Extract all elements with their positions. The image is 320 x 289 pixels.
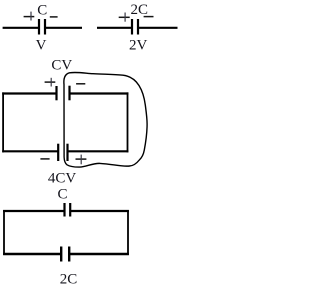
svg-text:V: V [36, 38, 47, 54]
wire middle loop right side [127, 92, 129, 152]
capacitor 2C (top-right) wire left [97, 27, 132, 29]
svg-text:2C: 2C [130, 2, 148, 18]
wire bottom rect bottom right segment [69, 253, 128, 255]
wire bottom rect top left segment [3, 210, 65, 212]
wire middle loop left side [2, 92, 4, 152]
svg-text:4CV: 4CV [48, 170, 77, 186]
capacitor 4CV plate right [66, 144, 68, 161]
wire bottom rect bottom left segment [3, 253, 61, 255]
svg-text:2V: 2V [129, 38, 148, 54]
capacitor 2C wire right [138, 27, 177, 29]
svg-text:CV: CV [51, 57, 72, 73]
capacitor 4CV plate left [57, 144, 59, 161]
label - (middle bottom cap) [40, 158, 49, 160]
svg-text:C: C [57, 187, 67, 203]
highlight loop around right branch (freehand) [64, 72, 147, 167]
capacitor 2C (bottom circuit) plate left [60, 247, 62, 262]
wire bottom rect left side [3, 210, 5, 255]
capacitor C (top-left) wire left [3, 27, 39, 29]
label + (top-left cap) [24, 16, 35, 18]
capacitor 2C (bottom circuit) plate right [68, 247, 70, 262]
wire middle bottom left segment [2, 150, 58, 152]
capacitor C (bottom circuit) plate right [69, 203, 71, 217]
capacitor 2C plate right [137, 19, 139, 35]
capacitor C plate right [44, 19, 46, 35]
capacitor C plate left [38, 19, 40, 35]
capacitor C (bottom circuit) plate left [63, 203, 65, 217]
capacitor CV plate left [55, 86, 57, 100]
capacitor 2C plate left [131, 19, 133, 35]
capacitor C wire right [45, 27, 82, 29]
label - (top-left cap) [50, 16, 58, 18]
label + (top-right cap) [119, 16, 130, 18]
svg-text:2C: 2C [60, 271, 78, 287]
wire bottom rect top right segment [70, 210, 128, 212]
label + (middle top cap) [45, 81, 56, 83]
wire middle top right segment [70, 92, 129, 94]
wire middle top left segment [2, 92, 57, 94]
svg-text:C: C [37, 3, 47, 19]
label + (middle bottom cap) [76, 158, 87, 160]
capacitor CV plate right [68, 86, 70, 101]
label - (middle top cap) [76, 83, 85, 85]
wire bottom rect right side [127, 210, 129, 255]
label - (top-right cap) [144, 16, 154, 18]
wire middle bottom right segment [68, 150, 129, 152]
